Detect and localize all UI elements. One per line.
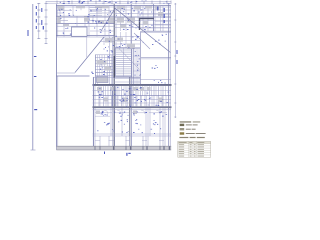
lower block	[93, 77, 172, 146]
below-band labels	[104, 152, 131, 156]
area table	[178, 141, 211, 157]
legend	[179, 121, 205, 138]
left dim chain	[36, 1, 48, 44]
stairwell	[114, 32, 141, 84]
left outer wall	[55, 4, 57, 150]
right rooms	[140, 31, 171, 84]
right dim line	[174, 3, 177, 118]
center wall	[130, 4, 132, 146]
plinth band	[56, 146, 171, 150]
upper-right wing	[101, 4, 171, 52]
terrace	[56, 37, 104, 147]
top dim band	[46, 0, 171, 4]
upper-left wing	[56, 6, 114, 37]
party wall	[113, 4, 114, 146]
right outer wall	[169, 4, 171, 146]
service rooms	[95, 37, 114, 85]
property line	[28, 4, 38, 150]
